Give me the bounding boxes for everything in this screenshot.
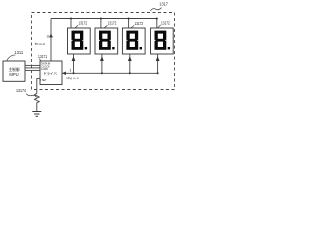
svg-text:13171: 13171 xyxy=(38,54,48,59)
svg-text:Idig o–o: Idig o–o xyxy=(67,76,79,80)
svg-text:LOAD: LOAD xyxy=(41,68,48,71)
svg-text:13174: 13174 xyxy=(16,88,27,93)
svg-text:13172: 13172 xyxy=(134,21,143,26)
svg-text:ドライバ: ドライバ xyxy=(43,71,57,76)
svg-text:MPU: MPU xyxy=(9,72,18,77)
svg-text:Im-o–o: Im-o–o xyxy=(35,42,46,46)
svg-text:13172: 13172 xyxy=(108,21,117,26)
svg-text:1311: 1311 xyxy=(14,50,24,55)
svg-text:13172: 13172 xyxy=(78,21,87,26)
svg-text:13172: 13172 xyxy=(161,20,170,25)
svg-text:1317: 1317 xyxy=(159,2,168,7)
svg-text:I SET: I SET xyxy=(41,79,48,82)
